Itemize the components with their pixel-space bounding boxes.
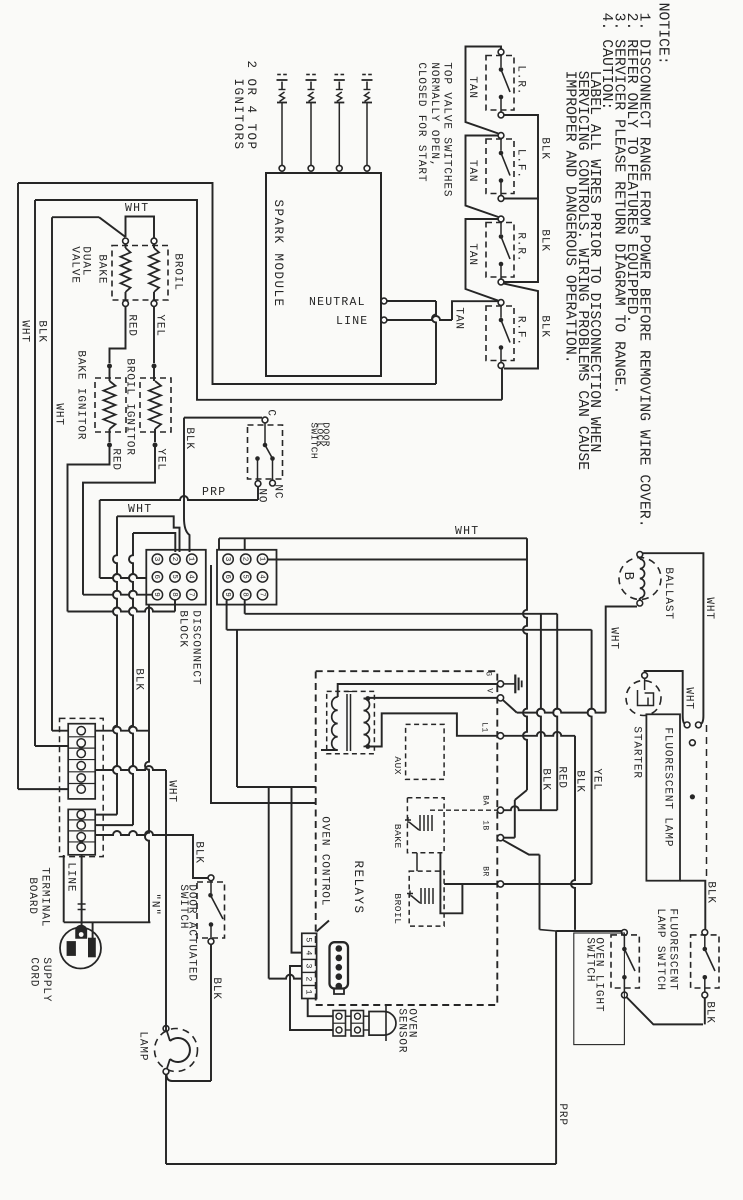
svg-text:FLUORESCENT: FLUORESCENT xyxy=(666,908,678,991)
oven control terminal L1 xyxy=(497,733,503,739)
wire ignitor 1 to spark module xyxy=(281,103,283,166)
plug ground prong xyxy=(76,926,86,939)
wire YEL drop xyxy=(588,630,592,884)
svg-text:BAKE: BAKE xyxy=(392,824,403,849)
wire R.F. bottom stub xyxy=(501,367,502,369)
svg-text:NC: NC xyxy=(271,484,283,499)
wire L1B blade run xyxy=(503,840,539,854)
svg-text:2: 2 xyxy=(241,557,249,562)
svg-text:NEUTRAL: NEUTRAL xyxy=(309,296,366,309)
dual valve dashed box xyxy=(112,246,168,301)
wire PRP down to disconnect 6 xyxy=(99,500,101,578)
svg-text:BLK: BLK xyxy=(538,315,550,338)
top valve switch L.R. xyxy=(486,56,514,111)
broil ignitor resistor xyxy=(140,378,171,432)
svg-text:BLK: BLK xyxy=(183,427,195,450)
fluorescent lamp holder xyxy=(646,714,680,880)
wire loop L.R. feed xyxy=(466,47,502,134)
oven sensor connectors xyxy=(333,1011,346,1037)
plug left prong xyxy=(67,942,75,956)
top ignitor 3 xyxy=(335,74,339,76)
disconnect block grid 2 xyxy=(217,550,277,605)
wire grid2-1 WHT to right xyxy=(268,559,527,561)
fluorescent lamp switch xyxy=(702,930,708,936)
wire lamp bus down xyxy=(113,516,117,814)
disconnect block grid 1 xyxy=(146,550,206,605)
svg-text:RED: RED xyxy=(125,314,137,337)
wire WHT valve feed corner xyxy=(52,216,99,218)
oven control terminal BR xyxy=(497,881,503,887)
oven control terminal G xyxy=(497,681,503,687)
wire PRP riser xyxy=(555,931,557,1164)
aux relay linkage xyxy=(430,809,497,811)
svg-text:L.R.: L.R. xyxy=(514,65,526,95)
wire lamp top feed xyxy=(165,1026,167,1032)
wire transformer to V terminal xyxy=(364,698,368,700)
broil relay xyxy=(409,871,444,926)
svg-text:NORMALLY OPEN,: NORMALLY OPEN, xyxy=(428,62,440,167)
junction transformer top xyxy=(365,696,370,701)
wire bake return to disconnect 8 xyxy=(68,608,176,612)
wire transformer stub left xyxy=(321,749,338,751)
oven lamp xyxy=(155,1029,198,1072)
svg-text:G: G xyxy=(483,671,492,676)
wire WHT bus to terminal board row6 xyxy=(18,788,68,790)
wire loop R.R. feed xyxy=(466,219,499,301)
fluorescent lamp mid contact xyxy=(690,794,695,799)
svg-text:4: 4 xyxy=(304,950,314,955)
svg-text:BLOCK: BLOCK xyxy=(176,610,188,648)
svg-text:R.R.: R.R. xyxy=(514,232,526,262)
wire switch chain right 3 xyxy=(504,284,538,369)
wire bake ignitor return xyxy=(68,445,110,612)
wire switch chain right 1 xyxy=(504,115,538,199)
wire bottom PRP run xyxy=(166,1163,556,1165)
svg-text:IGNITORS: IGNITORS xyxy=(231,79,245,151)
oven control terminal L1B xyxy=(497,835,503,841)
svg-text:WHT: WHT xyxy=(703,597,715,620)
svg-text:1: 1 xyxy=(187,557,195,562)
wire PRP to door lock NO xyxy=(100,496,258,500)
wire BLK center bus down xyxy=(129,533,133,825)
svg-text:FLUORESCENT LAMP: FLUORESCENT LAMP xyxy=(661,727,673,847)
svg-text:TERMINAL: TERMINAL xyxy=(38,867,50,927)
svg-text:BOARD: BOARD xyxy=(26,877,38,915)
svg-text:WHT: WHT xyxy=(455,525,479,538)
wire NEUTRAL to WHT loop xyxy=(387,300,436,302)
svg-text:SUPPLY: SUPPLY xyxy=(40,957,52,1002)
svg-text:WHT: WHT xyxy=(165,780,177,803)
svg-text:SWITCH: SWITCH xyxy=(583,937,595,982)
wire grid2-9 feed YEL xyxy=(227,629,592,631)
junction transformer bottom xyxy=(365,744,370,749)
svg-text:5: 5 xyxy=(241,574,249,579)
svg-text:B: B xyxy=(620,572,636,581)
svg-text:BA: BA xyxy=(480,795,489,805)
door actuated switch xyxy=(208,875,214,881)
top ignitor 2 xyxy=(306,74,310,76)
svg-text:YEL: YEL xyxy=(153,314,165,337)
wire BLK left bus xyxy=(34,200,36,746)
svg-text:SWITCH: SWITCH xyxy=(309,422,320,459)
wire broil return to disconnect 9 xyxy=(83,591,152,595)
wire valve top feed xyxy=(126,217,155,239)
svg-text:WHT: WHT xyxy=(125,202,149,215)
svg-text:8: 8 xyxy=(170,592,178,597)
wire N riser xyxy=(145,605,149,923)
svg-text:L.F.: L.F. xyxy=(514,149,526,179)
oven light switch xyxy=(622,930,628,936)
wire BLK door switch to lamp xyxy=(210,944,212,1081)
svg-text:2: 2 xyxy=(304,976,314,981)
wire lamp feed bus xyxy=(165,770,167,1026)
svg-text:L1: L1 xyxy=(479,722,488,732)
svg-text:RELAYS: RELAYS xyxy=(351,861,365,915)
terminal board dashed box xyxy=(60,718,104,856)
wire BLK bus to terminal board row2 xyxy=(35,745,68,747)
wire grid1 to oven control xyxy=(211,565,316,803)
wire BLK door lock to disconnect 2 xyxy=(184,417,262,419)
top valve switch L.F. xyxy=(486,139,514,194)
wire WHT return under module xyxy=(18,183,436,384)
comb connector xyxy=(330,942,349,988)
svg-text:3: 3 xyxy=(152,557,160,562)
svg-text:IMPROPER AND DANGEROUS OPERATI: IMPROPER AND DANGEROUS OPERATION. xyxy=(562,71,578,364)
svg-text:2 OR 4 TOP: 2 OR 4 TOP xyxy=(244,61,258,151)
ballast xyxy=(619,558,661,600)
wire ballast top WHT xyxy=(643,553,704,716)
supply cord plug xyxy=(60,928,101,969)
wire broil relay to BR terminal xyxy=(444,883,498,885)
bake valve coil xyxy=(123,238,129,244)
door lock switch xyxy=(262,417,268,423)
wire oven sensor lead 2 xyxy=(290,966,333,1030)
svg-text:BLK: BLK xyxy=(132,668,144,691)
svg-text:CORD: CORD xyxy=(27,957,39,987)
svg-text:4: 4 xyxy=(257,574,265,579)
svg-text:NOTICE:: NOTICE: xyxy=(655,3,671,65)
svg-text:7: 7 xyxy=(257,592,265,597)
spark module LINE terminal xyxy=(381,317,387,323)
svg-text:YEL: YEL xyxy=(590,768,602,791)
svg-text:RED: RED xyxy=(109,448,121,471)
terminal board lower block xyxy=(68,809,95,854)
svg-text:7: 7 xyxy=(187,592,195,597)
wire plug line jog xyxy=(63,855,65,922)
fluorescent lamp tube dashed edge xyxy=(706,725,708,877)
wire transformer to G terminal xyxy=(338,684,498,697)
wire strip pin5 stub xyxy=(317,921,329,932)
wire transformer bottom to L1 xyxy=(368,713,498,746)
wire RED bake valve to ignitor xyxy=(110,306,126,363)
wire WHT2 left bus xyxy=(51,217,53,731)
wire starter to lamp pin xyxy=(645,671,683,716)
svg-text:YEL: YEL xyxy=(154,448,166,471)
oven sensor bulb xyxy=(369,1012,396,1036)
strain relief ticks xyxy=(78,903,86,905)
wire ignitor 3 to spark module xyxy=(338,103,340,166)
top valve switch R.F. xyxy=(486,306,514,361)
svg-text:1: 1 xyxy=(257,557,265,562)
top ignitor 4 xyxy=(362,74,366,76)
wire WHT left bus xyxy=(17,183,19,789)
svg-text:BLK: BLK xyxy=(192,841,204,864)
wire BLK return under module xyxy=(35,200,502,400)
terminal board upper block xyxy=(68,724,95,799)
wire plug N run xyxy=(64,921,151,923)
svg-text:WHT: WHT xyxy=(52,403,64,426)
svg-text:DISCONNECT: DISCONNECT xyxy=(189,610,201,685)
wire BLK rail to grid1-2 xyxy=(133,533,175,552)
svg-text:TAN: TAN xyxy=(466,243,478,266)
svg-text:LINE: LINE xyxy=(64,862,76,892)
svg-text:6: 6 xyxy=(152,574,160,579)
svg-text:PRP: PRP xyxy=(556,1103,568,1126)
svg-text:9: 9 xyxy=(223,592,231,597)
svg-text:OVEN CONTROL: OVEN CONTROL xyxy=(318,816,330,906)
svg-text:AUX: AUX xyxy=(392,756,403,775)
svg-text:V: V xyxy=(484,688,493,693)
wire WHT riser right xyxy=(523,538,527,790)
svg-text:LINE: LINE xyxy=(336,315,368,328)
wire plug neutral xyxy=(81,855,83,930)
svg-text:3: 3 xyxy=(223,557,231,562)
wire strip pin4 xyxy=(292,787,302,953)
bake relay xyxy=(407,798,444,853)
svg-text:BLK: BLK xyxy=(35,320,47,343)
wire switch chain right 2 xyxy=(504,199,538,283)
wire terminal1 to disconnect col xyxy=(95,727,149,731)
oven control connector strip xyxy=(302,933,317,998)
svg-text:LAMP: LAMP xyxy=(136,1031,148,1061)
svg-text:1B: 1B xyxy=(480,820,489,830)
wire WHT2 bus to terminal board row1 xyxy=(52,730,68,732)
svg-text:SENSOR: SENSOR xyxy=(395,1008,407,1053)
svg-text:TAN: TAN xyxy=(466,76,478,99)
spark module box xyxy=(266,173,381,376)
svg-text:3: 3 xyxy=(304,963,314,968)
aux relay xyxy=(406,724,445,779)
wire grid2-9 branch to oven control xyxy=(236,630,238,787)
svg-text:WHT: WHT xyxy=(18,320,30,343)
svg-text:5: 5 xyxy=(304,937,314,942)
wire bake-broil relay links xyxy=(416,853,418,871)
fluorescent lamp pins xyxy=(684,722,690,728)
svg-text:STARTER: STARTER xyxy=(630,726,642,779)
starter xyxy=(626,681,661,716)
svg-text:BLK: BLK xyxy=(704,881,716,904)
svg-text:C: C xyxy=(264,409,276,417)
wire oven light switch out xyxy=(626,997,703,1024)
wire BR terminal run xyxy=(504,883,592,885)
wire YEL broil valve to ignitor xyxy=(153,306,155,363)
svg-text:"N": "N" xyxy=(148,893,160,916)
svg-text:LAMP SWITCH: LAMP SWITCH xyxy=(654,908,666,991)
wire grid2-8 feed BLK RED xyxy=(245,613,558,615)
wire BA terminal to drops xyxy=(504,806,558,810)
svg-text:TAN: TAN xyxy=(452,307,464,330)
svg-text:R.F.: R.F. xyxy=(514,316,526,346)
wire grid2-8 stub xyxy=(244,600,246,614)
svg-text:BR: BR xyxy=(480,866,489,876)
oven control terminal V xyxy=(497,695,503,701)
svg-text:SWITCH: SWITCH xyxy=(177,884,189,929)
svg-text:SPARK MODULE: SPARK MODULE xyxy=(271,200,285,308)
wire lamp bottom to PRP run xyxy=(165,1074,167,1164)
wire lamp bottom BLK xyxy=(680,881,705,930)
wire BLK to door switch xyxy=(166,835,208,878)
ground symbol xyxy=(504,683,515,685)
wire terminal5 to lamp bus xyxy=(95,766,166,770)
top valve switch R.R. xyxy=(486,223,514,278)
svg-text:WHT: WHT xyxy=(607,627,619,650)
wire BLK L1 drop xyxy=(504,732,575,736)
svg-text:9: 9 xyxy=(152,592,160,597)
svg-text:8: 8 xyxy=(241,592,249,597)
svg-text:WHT: WHT xyxy=(128,503,152,516)
oven control terminal BA xyxy=(497,807,503,813)
wire terminal lower3 junction xyxy=(95,831,166,835)
wire broil ignitor return xyxy=(83,445,155,595)
svg-text:1: 1 xyxy=(304,989,314,994)
svg-text:2: 2 xyxy=(170,557,178,562)
wire grid2-9 stub xyxy=(226,600,228,630)
svg-text:PRP: PRP xyxy=(202,486,226,499)
wire loop L.F. feed xyxy=(466,136,499,218)
svg-text:BLK: BLK xyxy=(210,977,222,1000)
wire strip pin2 xyxy=(269,975,302,979)
svg-text:BROIL: BROIL xyxy=(392,893,403,924)
wire V blade to ballast return xyxy=(503,700,517,712)
wire RED drop xyxy=(553,614,557,810)
spark module NEUTRAL terminal xyxy=(381,298,387,304)
svg-text:BAKE: BAKE xyxy=(95,254,107,284)
svg-text:BLK: BLK xyxy=(538,137,550,160)
svg-text:BROIL: BROIL xyxy=(171,253,183,291)
broil valve coil xyxy=(151,238,157,244)
svg-text:WHT: WHT xyxy=(682,687,694,710)
junction bake ignitor top xyxy=(107,364,112,369)
svg-text:VALVE: VALVE xyxy=(68,246,80,284)
wire ignitor 4 to spark module xyxy=(366,103,368,166)
oven control transformer xyxy=(327,691,375,753)
svg-text:4: 4 xyxy=(187,574,195,579)
junction broil ignitor top xyxy=(152,364,157,369)
top ignitor 1 xyxy=(277,74,281,76)
svg-text:BLK: BLK xyxy=(573,770,585,793)
svg-text:BLK: BLK xyxy=(538,229,550,252)
wire ignitor 2 to spark module xyxy=(310,103,312,166)
svg-text:5: 5 xyxy=(170,574,178,579)
wire LINE to TAN feed xyxy=(387,316,452,320)
svg-text:CLOSED FOR START: CLOSED FOR START xyxy=(415,62,427,182)
oven control dashed box xyxy=(316,671,498,1005)
svg-text:BLK: BLK xyxy=(703,1001,715,1024)
svg-text:TOP VALVE SWITCHES: TOP VALVE SWITCHES xyxy=(440,62,452,197)
svg-text:BAKE IGNITOR: BAKE IGNITOR xyxy=(74,350,86,440)
svg-text:6: 6 xyxy=(223,574,231,579)
bake ignitor resistor xyxy=(95,378,126,432)
wire oven light switch feed xyxy=(556,930,621,932)
oven light switch inner outline xyxy=(574,933,625,1045)
svg-text:BLK: BLK xyxy=(539,768,551,791)
wire oven sensor lead 1 xyxy=(308,999,333,1017)
svg-text:TAN: TAN xyxy=(466,160,478,183)
svg-text:RED: RED xyxy=(555,766,567,789)
plug right prong xyxy=(89,938,96,957)
svg-text:BALLAST: BALLAST xyxy=(662,567,674,620)
wire BLK drop 1 xyxy=(537,614,541,810)
